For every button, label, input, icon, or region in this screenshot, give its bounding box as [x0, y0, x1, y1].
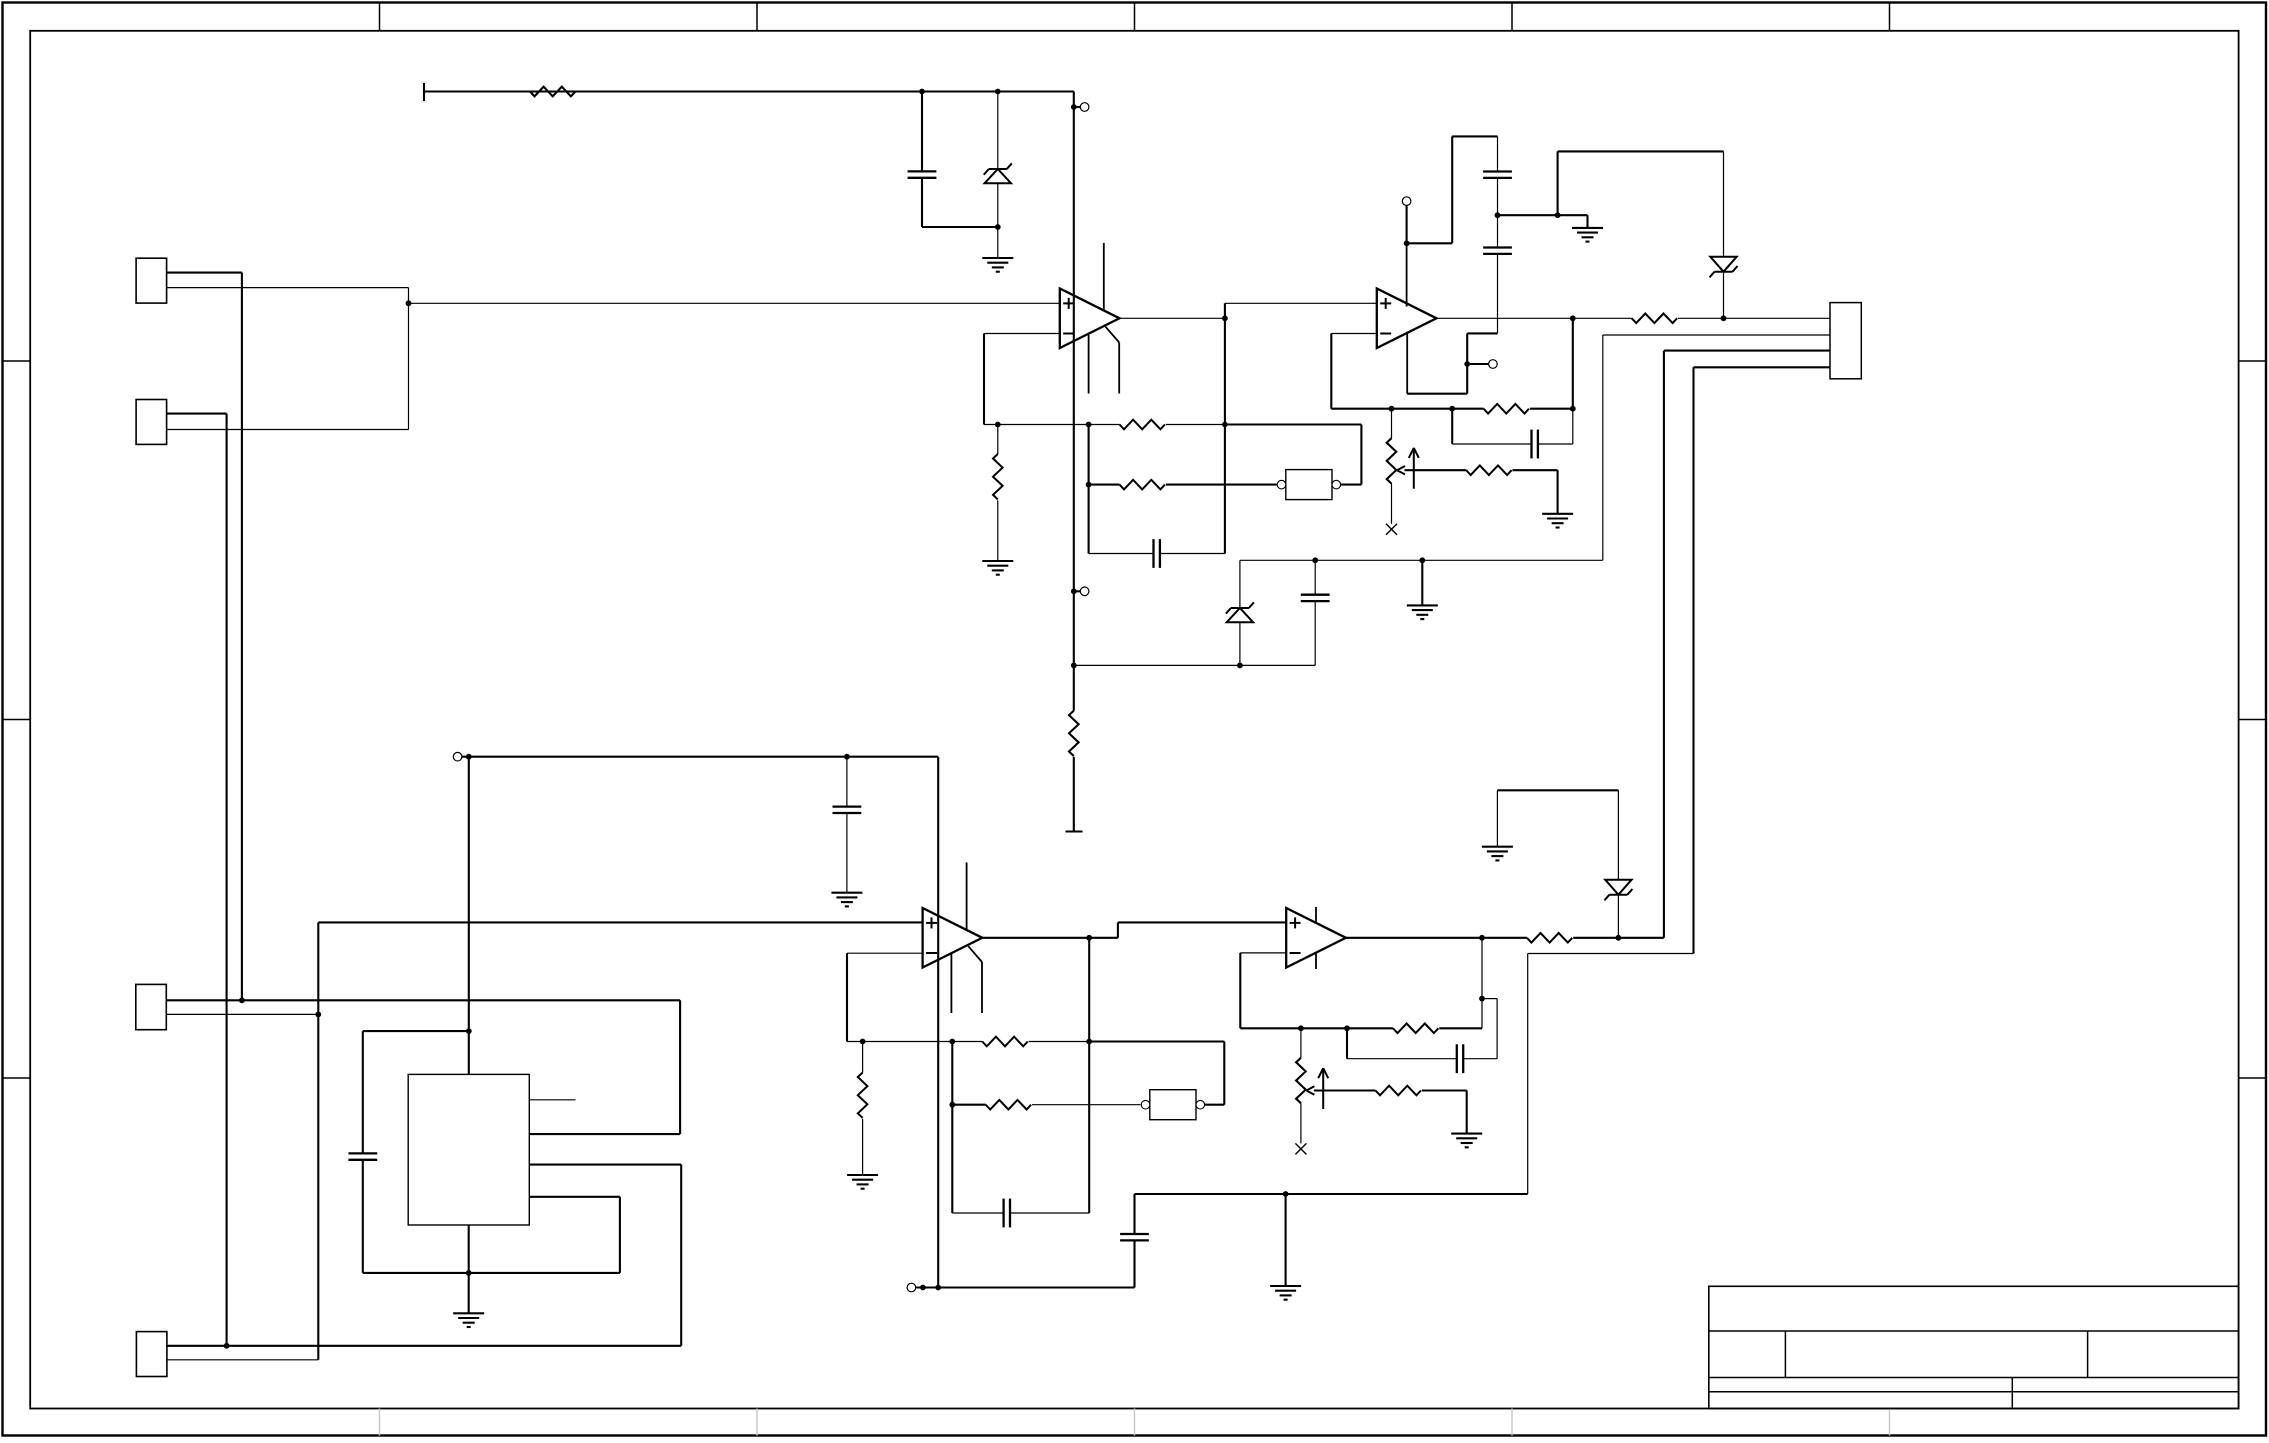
- wire G9 stem: [1496, 790, 1498, 846]
- wire U4 fb row a: [1240, 1027, 1393, 1029]
- wire IC bottom row: [363, 1272, 620, 1274]
- border zone tick top 1: [379, 3, 381, 31]
- opto-isolator K1: [1277, 470, 1340, 500]
- wire bottom terminal row: [916, 1286, 1135, 1288]
- node U2 V- NC: [1464, 361, 1470, 367]
- wire C6 top lead: [362, 1031, 364, 1153]
- connector J2: [1830, 303, 1861, 379]
- wire top rail: [424, 90, 1074, 92]
- wire U2 - stub: [1331, 333, 1377, 335]
- wire G6 stem: [468, 1273, 470, 1313]
- wire D3 bottom lead: [1239, 622, 1241, 665]
- wire row2b right: [1032, 1104, 1141, 1106]
- resistor R7 (U3 feedback): [982, 1037, 1027, 1047]
- no-connect circle 1: [1080, 103, 1089, 112]
- wire C1 bottom lead: [921, 178, 923, 227]
- resistor R10 (wiper P2): [1376, 1086, 1421, 1096]
- wire outcol3 vertical: [1088, 938, 1090, 1213]
- ground GND6: [453, 1313, 484, 1327]
- wire U2 V- b: [1466, 364, 1468, 394]
- connector J1b: [136, 400, 167, 445]
- node fb4 / cap: [1344, 1025, 1350, 1031]
- ground GND2: [982, 561, 1013, 575]
- wire cap row2 left: [952, 1212, 1003, 1214]
- node rail2 start: [466, 754, 472, 760]
- wire U4 out column: [1481, 938, 1483, 1029]
- wire U3 - drop: [846, 953, 848, 1041]
- wire main vertical bus VCC-top: [1073, 92, 1075, 711]
- wire R10 to ground: [1422, 1089, 1467, 1091]
- node row low / G8: [1283, 1191, 1289, 1197]
- wire U4 - stub: [1240, 952, 1286, 954]
- capacitor C11: [1457, 1044, 1463, 1073]
- node bterm a: [920, 1285, 926, 1291]
- connector J1d: [136, 1332, 167, 1377]
- wire col2 vertical: [1088, 425, 1090, 554]
- wire IC pin3 row: [529, 1196, 620, 1198]
- node C2/C3 mid: [1495, 212, 1501, 218]
- capacitor C5: [833, 807, 862, 813]
- capacitor C8 (U1 fb): [1154, 539, 1160, 568]
- no-connect circle 2: [1080, 587, 1089, 596]
- wire C5 bottom lead: [846, 813, 848, 893]
- wire C4 bottom lead: [1314, 601, 1316, 665]
- wire opto2 return up: [1223, 1042, 1225, 1105]
- ground GND9: [1482, 847, 1513, 861]
- ground GND11: [847, 1175, 878, 1189]
- zener diode D4: [1604, 880, 1632, 901]
- border zone tick bottom 4: [1511, 1409, 1513, 1436]
- wire C11 row right: [1463, 1058, 1497, 1060]
- wire ground stem G3: [1586, 215, 1588, 228]
- node IC gnd: [466, 1270, 472, 1276]
- wire U3->U4 a: [1089, 937, 1118, 939]
- capacitor C7: [1120, 1234, 1149, 1240]
- wire J1a pin1: [167, 272, 242, 274]
- opto-isolator K2: [1141, 1090, 1204, 1120]
- wire NC stub 2: [1074, 590, 1081, 592]
- wire C9 drop: [1451, 409, 1453, 444]
- wire U3 - stub: [847, 952, 923, 954]
- wire wiper row P1: [1405, 469, 1467, 471]
- wire D1 cathode lead: [997, 92, 999, 170]
- wire row2b left: [952, 1104, 985, 1106]
- wire J1d pin1 loop left: [529, 1164, 681, 1166]
- wire V+ stair b: [1451, 136, 1453, 243]
- P2 wiper arrow: [1306, 1068, 1328, 1109]
- wire NC stub 1: [1074, 106, 1081, 108]
- wire C5 top lead: [846, 757, 848, 807]
- wire cap row2 right: [1010, 1212, 1089, 1214]
- wire G5 stem: [1421, 560, 1423, 605]
- wire R11 to corner: [1573, 937, 1664, 939]
- wire J1c pin1 loop down: [679, 1000, 681, 1134]
- node output / D2: [1721, 315, 1727, 321]
- wire C7 bottom lead: [1133, 1240, 1135, 1287]
- node U4 output: [1479, 935, 1485, 941]
- zener diode D2: [1710, 257, 1738, 278]
- wire J1b pin1 drop: [226, 414, 228, 1346]
- wire C2 bottom lead: [1497, 178, 1499, 215]
- border zone tick right 3: [2239, 1077, 2265, 1079]
- title block row line 2: [1709, 1377, 2239, 1379]
- resistor R9 (U4 feedback): [1393, 1024, 1438, 1034]
- node fb2 / pot: [1389, 406, 1395, 412]
- wire mid row: [1498, 214, 1558, 216]
- wire cap row left: [1089, 553, 1154, 555]
- resistor R3 (opto drive): [1120, 480, 1165, 490]
- resistor R6 (output): [1632, 314, 1677, 324]
- node bottom row / D3: [1237, 663, 1243, 669]
- terminal tick T2: [1066, 830, 1083, 832]
- wire C3 bottom lead: [1497, 254, 1499, 334]
- wire U2 V- d: [1467, 332, 1497, 334]
- wire V+ stair a: [1407, 242, 1453, 244]
- node pin1 row / drop: [239, 997, 245, 1003]
- wire J1d pin1 loop up: [680, 1165, 682, 1346]
- capacitor C4: [1301, 595, 1330, 601]
- wire U4 out row a: [1346, 937, 1482, 939]
- wire U2 - drop: [1330, 334, 1332, 409]
- node outcol / caploop: [1479, 996, 1485, 1002]
- node grow / C4: [1312, 557, 1318, 563]
- ground GND3: [1572, 228, 1603, 242]
- node J1d pin1 / drop: [224, 1343, 230, 1349]
- ground GND7: [831, 893, 862, 907]
- ground GND1: [982, 258, 1013, 272]
- node top rail / C1: [919, 89, 925, 95]
- title block divider a: [1784, 1331, 1786, 1378]
- wire C9 row left: [1452, 443, 1531, 445]
- resistor R5 (wiper P1): [1466, 465, 1511, 475]
- wire G4 stem: [1557, 470, 1559, 514]
- capacitor C3: [1483, 248, 1512, 254]
- wire U3->U4 b: [1118, 921, 1286, 923]
- wire RV1 bottom lead: [997, 500, 999, 561]
- wire U3 fb row right: [1029, 1041, 1090, 1043]
- wire U4 fb row b: [1439, 1027, 1482, 1029]
- potentiometer P2: [1296, 1028, 1306, 1143]
- wire pin4 row low: [1135, 1193, 1528, 1195]
- node fb2 / out col: [1570, 406, 1576, 412]
- wire U1 feedback row left: [984, 424, 1120, 426]
- wire opto out: [1341, 484, 1362, 486]
- wire up leg to D2 rail: [1557, 151, 1559, 215]
- P1 wiper arrow: [1397, 448, 1419, 489]
- wire U2 out column b: [1572, 409, 1574, 444]
- wire pin3 drop: [1663, 351, 1665, 938]
- wire C7 top lead: [1133, 1194, 1135, 1234]
- wire U2 fb row b: [1530, 408, 1573, 410]
- wire C11 drop: [1346, 1028, 1348, 1058]
- ground GND4: [1542, 514, 1573, 528]
- wire RV3 bottom lead: [862, 1119, 864, 1175]
- node IC feed / cap loop: [466, 1028, 472, 1034]
- node pin2 row / bus: [315, 1012, 321, 1018]
- wire input bus vertical: [317, 922, 319, 1359]
- wire pin4 across: [1528, 953, 1694, 955]
- node pin2 / U1 input: [406, 300, 412, 306]
- wire G8 stem: [1285, 1194, 1287, 1286]
- resistor R8 (opto2 drive): [986, 1100, 1031, 1110]
- wire U1 - input stub: [984, 333, 1060, 335]
- node U3 output: [1086, 935, 1092, 941]
- resistor R4 (U2 feedback): [1484, 404, 1529, 414]
- wire G10 stem: [1466, 1091, 1468, 1134]
- title block row line 1: [1709, 1330, 2239, 1332]
- title block divider c: [2011, 1378, 2013, 1409]
- capacitor C2: [1483, 172, 1512, 178]
- border zone tick bottom 5: [1889, 1409, 1891, 1436]
- wire U1->U2 link: [1225, 302, 1377, 304]
- wire C11 top link: [1482, 998, 1497, 1000]
- wire rail2 drop: [937, 757, 939, 1288]
- capacitor C10: [1004, 1199, 1010, 1228]
- wire U2 out row: [1438, 317, 1573, 319]
- wire IC feed drop: [468, 757, 470, 1075]
- border zone tick top 3: [1134, 3, 1136, 31]
- wire opto return up: [1360, 425, 1362, 485]
- resistor RV3: [858, 1073, 868, 1118]
- op-amp U2: [1377, 243, 1437, 393]
- wire wiper row P2: [1314, 1089, 1376, 1091]
- wire U2 out column a: [1572, 318, 1574, 408]
- wire C1 top lead: [921, 92, 923, 172]
- wire J1d pin2 row: [167, 1359, 318, 1361]
- wire C4 top lead: [1314, 560, 1316, 594]
- wire D2 cathode lead: [1723, 151, 1725, 256]
- ground GND5: [1407, 605, 1438, 619]
- wire C6 bottom lead: [362, 1160, 364, 1273]
- wire cap row right: [1160, 553, 1225, 555]
- wire C9 row right: [1538, 443, 1573, 445]
- wire opto2 return row: [1089, 1040, 1224, 1042]
- wire ground row mid: [1240, 559, 1603, 561]
- node col2 / row2: [1086, 482, 1092, 488]
- wire J2 pin2: [1603, 334, 1830, 336]
- wire D4 bottom lead: [1617, 896, 1619, 938]
- potentiometer P1: [1387, 409, 1397, 524]
- wire J1b pin1: [167, 413, 227, 415]
- wire D4 top lead: [1617, 790, 1619, 879]
- op-amp U3: [923, 862, 983, 1013]
- wire U3 output: [982, 937, 1089, 939]
- IC U5 block: [408, 1074, 529, 1225]
- wire J1a pin1 drop: [241, 273, 243, 1001]
- capacitor C9: [1532, 430, 1538, 459]
- node fb3 / outcol: [1086, 1039, 1092, 1045]
- wire opto2 out: [1205, 1104, 1224, 1106]
- border zone tick top 4: [1511, 3, 1513, 31]
- title block row line 3: [1709, 1391, 2239, 1393]
- wire C11 row left: [1347, 1058, 1457, 1060]
- node U2 output: [1570, 315, 1576, 321]
- border zone tick left 3: [3, 1077, 31, 1079]
- border zone tick top 2: [756, 3, 758, 31]
- ground GND8: [1270, 1286, 1301, 1300]
- wire R5 to ground: [1513, 469, 1558, 471]
- node rail2 / C5: [844, 754, 850, 760]
- wire J1d pin1 row: [167, 1345, 681, 1347]
- border zone tick right 1: [2239, 360, 2265, 362]
- wire rail2: [462, 756, 938, 758]
- wire U1 output: [1120, 317, 1225, 319]
- border zone tick bottom 1: [379, 1409, 381, 1436]
- wire U4 out row b: [1482, 937, 1527, 939]
- wire D2 rail: [1558, 150, 1724, 152]
- wire D4 rail: [1497, 789, 1618, 791]
- node top rail / D1: [995, 89, 1001, 95]
- wire U2 fb row a: [1331, 408, 1483, 410]
- wire U1 feedback row right: [1166, 424, 1225, 426]
- wire IC bottom pin: [468, 1225, 470, 1273]
- wire row2 right: [1166, 484, 1277, 486]
- op-amp U4: [1286, 907, 1346, 969]
- border zone tick bottom 2: [756, 1409, 758, 1436]
- connector J1c: [136, 984, 167, 1029]
- no-connect X P1: [1386, 524, 1397, 535]
- wire pin2 drop: [1602, 335, 1604, 560]
- wire J1a pin2 drop: [408, 288, 410, 430]
- capacitor C6: [348, 1153, 377, 1159]
- border zone tick left 1: [3, 360, 31, 362]
- resistor R2 (U1 feedback): [1120, 420, 1165, 430]
- node fb row / output col: [1222, 422, 1228, 428]
- wire bottom row: [1074, 664, 1315, 666]
- node output2 / D4: [1616, 935, 1622, 941]
- wire output column: [1224, 303, 1226, 553]
- ground GND10: [1451, 1134, 1482, 1148]
- wire C1-D1 bottom link: [922, 226, 998, 228]
- resistor R1 (top rail): [530, 87, 575, 97]
- resistor RV2 (bus): [1069, 711, 1079, 756]
- wire V+ stair c: [1452, 135, 1497, 137]
- border zone tick left 2: [3, 719, 31, 721]
- zener diode D1: [984, 163, 1012, 183]
- node fb2 / cap: [1449, 406, 1455, 412]
- terminal circle rail2: [453, 752, 462, 761]
- wire J1c pin2 row: [166, 1013, 318, 1015]
- node bterm b: [935, 1285, 941, 1291]
- zener diode D3: [1226, 602, 1254, 622]
- wire U2 V+ NC stub: [1406, 205, 1408, 243]
- node bus NC stub 2: [1071, 588, 1077, 594]
- wire U2 V- c: [1466, 333, 1468, 364]
- wire J1b pin2: [167, 429, 409, 431]
- border zone tick bottom 3: [1134, 1409, 1136, 1436]
- node D1 anode: [995, 224, 1001, 230]
- resistor RV1: [993, 454, 1003, 499]
- node mid row: [1555, 212, 1561, 218]
- wire J1c pin1 loop left: [529, 1133, 680, 1135]
- op-amp U1: [1060, 243, 1120, 394]
- border zone tick top 5: [1889, 3, 1891, 31]
- wire RV1 top lead: [997, 425, 999, 455]
- wire U2 V- NC stub: [1467, 363, 1488, 365]
- wire U1 - feedback drop: [983, 334, 985, 425]
- terminal circle bottom: [907, 1283, 916, 1292]
- wire C11 up leg: [1496, 999, 1498, 1059]
- node col3 / row2: [949, 1102, 955, 1108]
- node fb row / RV1: [995, 422, 1001, 428]
- wire U4 - drop: [1239, 953, 1241, 1028]
- node grow / G5: [1419, 557, 1425, 563]
- wire pin4 drop: [1692, 367, 1694, 953]
- wire J1c pin1 row: [166, 999, 680, 1001]
- node bus / ground row: [1071, 663, 1077, 669]
- wire C3 top lead: [1497, 215, 1499, 247]
- capacitor C1: [908, 171, 937, 177]
- resistor R11 (output2): [1527, 933, 1572, 943]
- wire D3 top lead: [1239, 560, 1241, 608]
- wire RV3 top lead: [862, 1042, 864, 1073]
- wire D1 ground stem: [997, 227, 999, 258]
- no-connect circle U2b: [1489, 360, 1498, 369]
- title block outline: [1709, 1286, 2239, 1408]
- wire mid to ground jog: [1558, 214, 1588, 216]
- no-connect X P2: [1295, 1143, 1306, 1154]
- wire J2 pin4: [1694, 366, 1831, 368]
- wire R6 to connector: [1678, 317, 1830, 319]
- wire U3 fb row left: [847, 1041, 982, 1043]
- wire D2 anode lead: [1723, 272, 1725, 318]
- wire bus lower lead: [1073, 757, 1075, 832]
- wire IC pin3 drop: [619, 1197, 621, 1273]
- title block divider b: [2087, 1331, 2089, 1378]
- no-connect circle U2: [1402, 197, 1411, 206]
- wire U1 + input long: [409, 302, 1060, 304]
- wire C2 top lead: [1497, 136, 1499, 171]
- terminal tick T1: [423, 83, 425, 101]
- wire opto return row: [1225, 423, 1362, 425]
- wire U3 + input row: [318, 921, 922, 923]
- wire C6 loop top: [363, 1030, 469, 1032]
- wire J2 pin3: [1664, 350, 1830, 352]
- wire U3->U4 jog: [1117, 922, 1119, 937]
- wire U2 V- a: [1407, 393, 1467, 395]
- wire out row to R6: [1573, 317, 1632, 319]
- wire row2 left: [1089, 484, 1120, 486]
- border zone tick right 2: [2239, 719, 2265, 721]
- wire pin4 drop2: [1527, 954, 1529, 1195]
- node fb3 / RV3: [860, 1039, 866, 1045]
- wire IC pin right stub: [529, 1099, 575, 1101]
- node U1 output: [1222, 315, 1228, 321]
- node bus NC stub 1: [1071, 104, 1077, 110]
- wire D1 anode lead: [997, 183, 999, 227]
- node fb row / col2: [1086, 422, 1092, 428]
- node U2 V+ junction: [1404, 240, 1410, 246]
- connector J1a: [136, 258, 167, 303]
- node fb4 / pot: [1298, 1025, 1304, 1031]
- wire col3 vertical: [951, 1042, 953, 1214]
- wire J1a pin2: [167, 287, 409, 289]
- node fb3 / col: [949, 1039, 955, 1045]
